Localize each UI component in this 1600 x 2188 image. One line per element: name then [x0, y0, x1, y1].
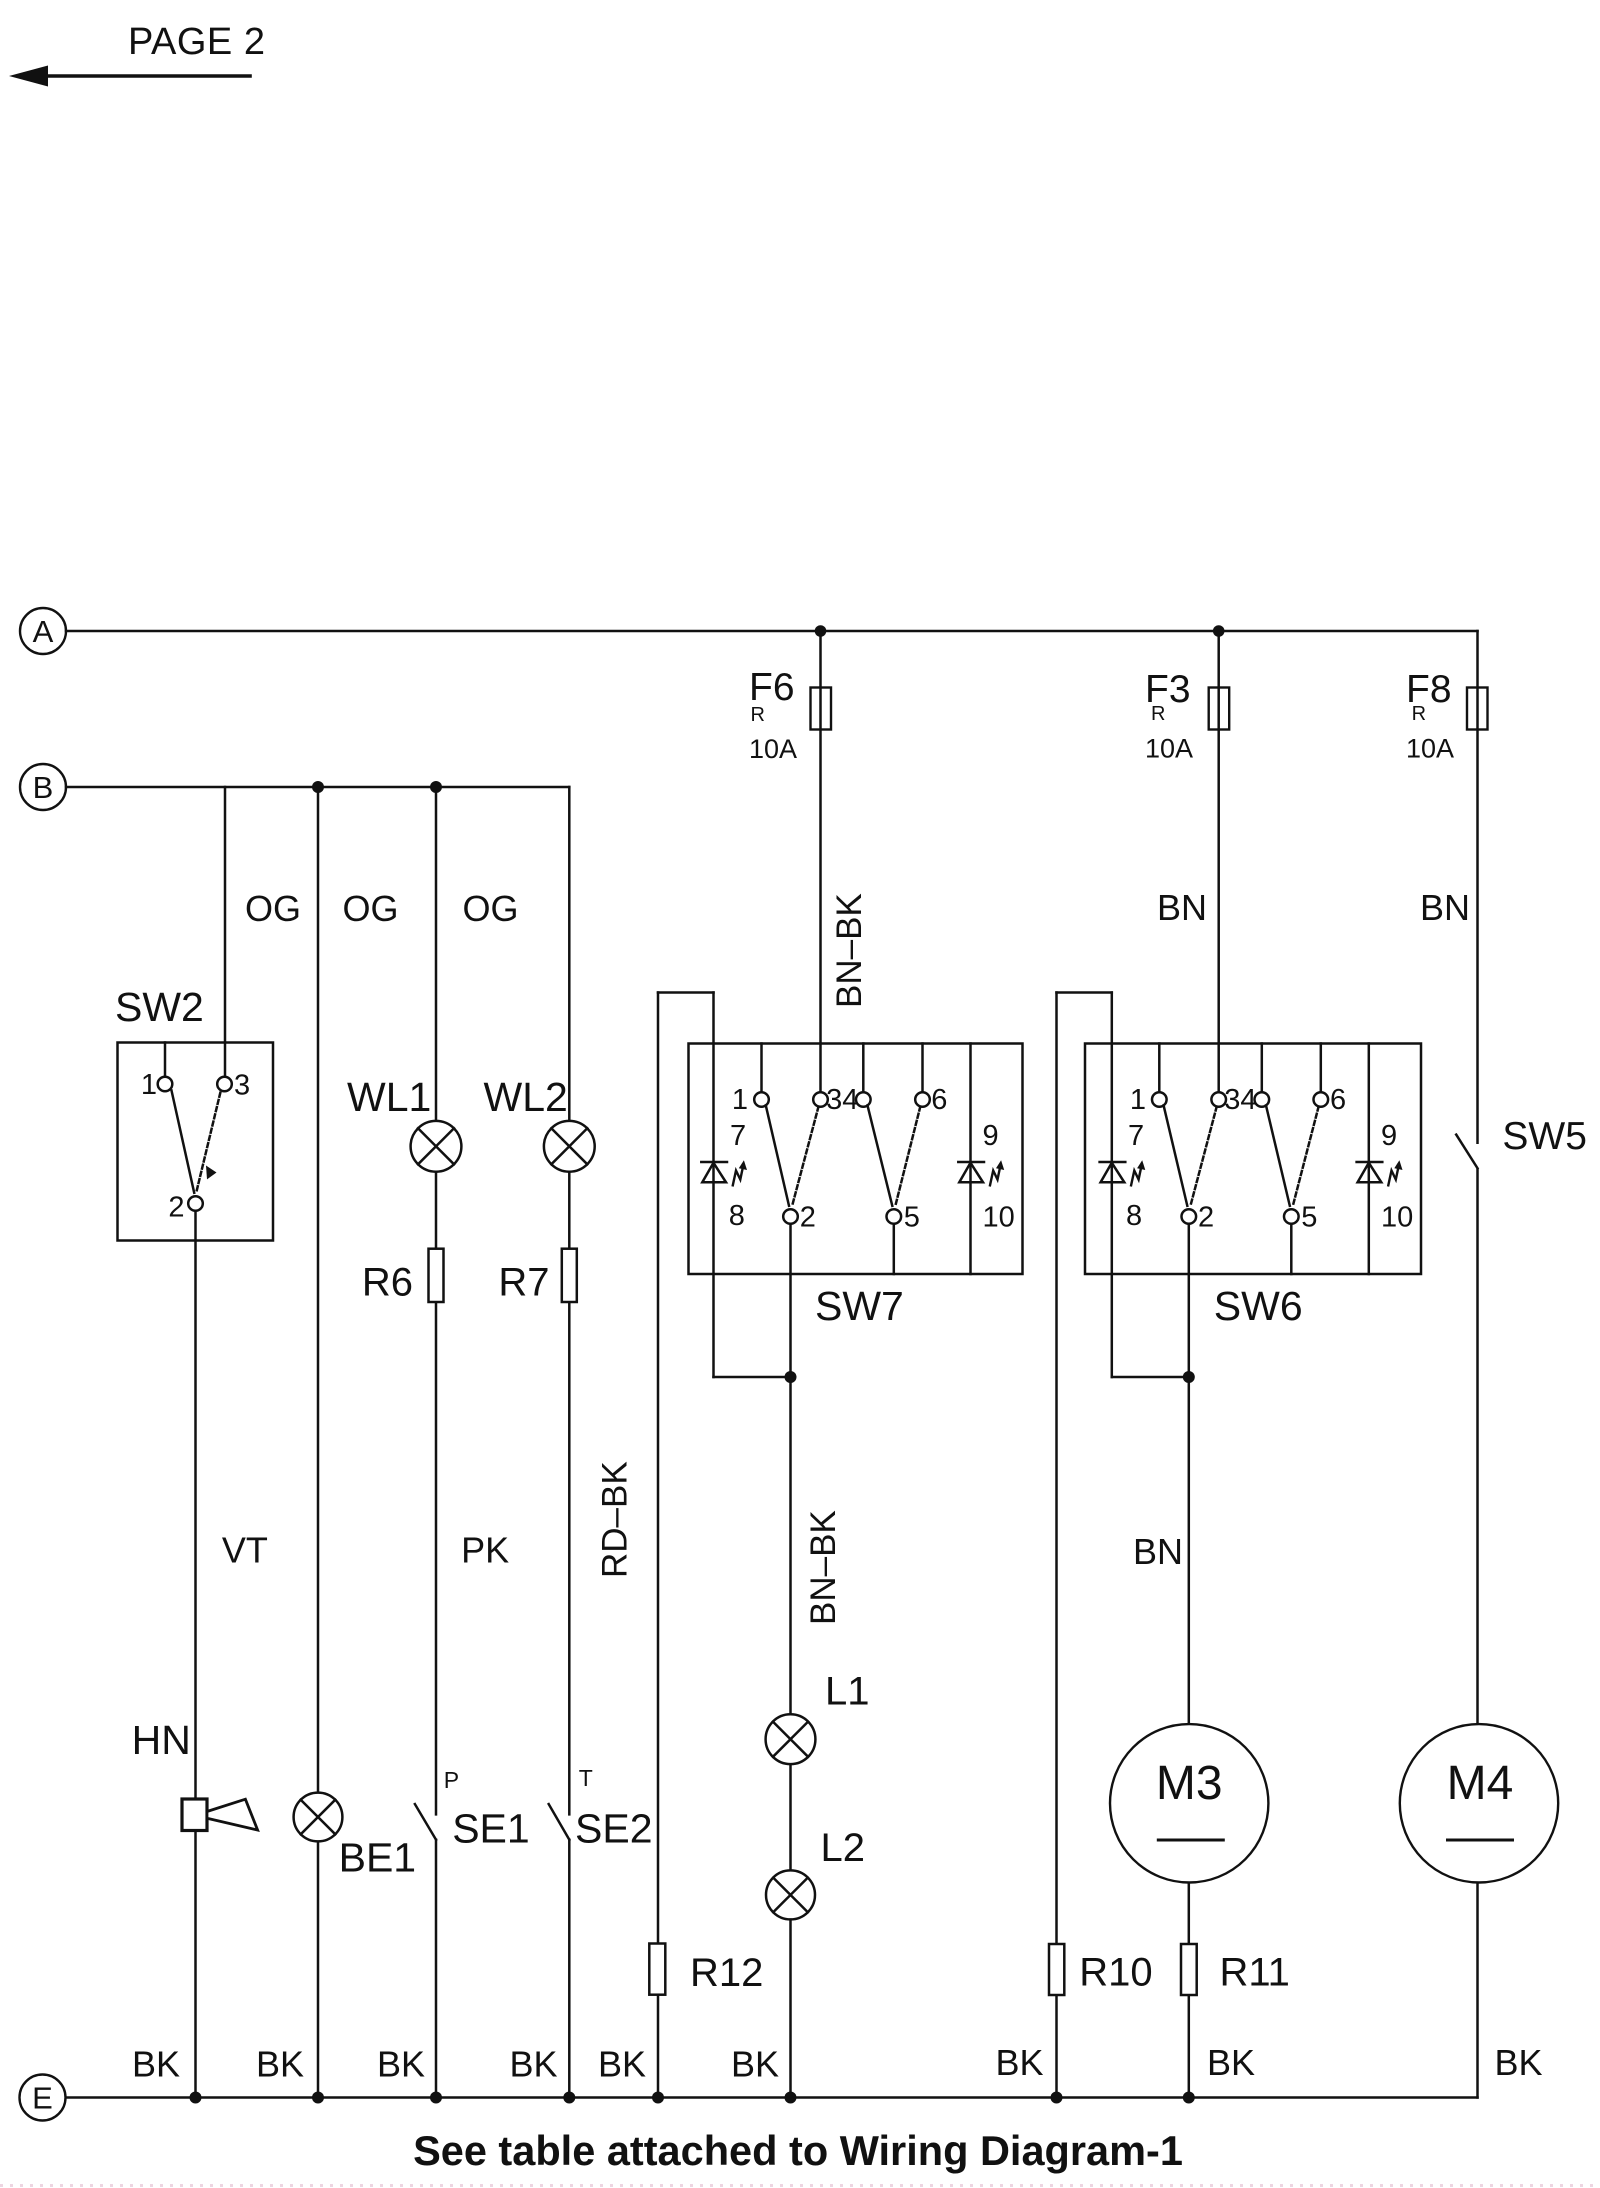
svg-text:9: 9	[983, 1120, 999, 1152]
SW6 pin 6 stub	[1320, 1044, 1323, 1093]
resistor R7	[562, 1249, 577, 1302]
svg-text:10: 10	[1381, 1201, 1413, 1233]
lamp WL2	[544, 1121, 595, 1172]
SW7 pin 2	[783, 1209, 798, 1224]
SW6 pin 1	[1152, 1092, 1167, 1107]
svg-text:7: 7	[1128, 1120, 1144, 1152]
svg-text:R10: R10	[1079, 1951, 1152, 1995]
svg-text:L1: L1	[825, 1670, 870, 1714]
svg-text:SW6: SW6	[1214, 1283, 1303, 1329]
svg-text:M3: M3	[1156, 1757, 1223, 1810]
svg-text:R: R	[1151, 703, 1165, 725]
SW2 alternate contact 3-2 dashed	[197, 1093, 221, 1192]
SW7 indicator diode line (pins 9-10)	[969, 1044, 972, 1275]
svg-text:SW7: SW7	[815, 1283, 904, 1329]
svg-text:BK: BK	[377, 2044, 425, 2085]
wire: SW6 bypass top bend	[1057, 991, 1112, 994]
lamp L1	[766, 1714, 816, 1764]
SW6 pin 3	[1211, 1092, 1226, 1107]
svg-text:OG: OG	[463, 888, 519, 929]
SW6 contact 3-2 dashed	[1191, 1107, 1217, 1206]
svg-text:10A: 10A	[1145, 734, 1193, 764]
switch SW5	[1456, 1135, 1477, 1169]
SW6 pin 4 stub	[1261, 1044, 1264, 1093]
decorative bottom dotted rule	[0, 2184, 1600, 2187]
junction dot A/F3	[1213, 625, 1225, 637]
svg-text:BN–BK: BN–BK	[830, 893, 869, 1008]
svg-text:10A: 10A	[749, 734, 797, 764]
wire: WL2 branch lower (SE2 to bus E)	[568, 1840, 571, 2098]
svg-text:3: 3	[234, 1070, 250, 1102]
junction dot SW7 pin2/diode	[785, 1371, 797, 1383]
svg-text:M4: M4	[1447, 1757, 1514, 1810]
horn HN	[182, 1799, 258, 1831]
svg-text:B: B	[33, 770, 54, 805]
wire: SW7 diode to pin2 connector	[714, 1376, 791, 1379]
SW6 pin 5	[1284, 1209, 1299, 1224]
svg-text:5: 5	[904, 1201, 920, 1233]
svg-text:10A: 10A	[1406, 734, 1454, 764]
wire: SW5 to motor M4 to bus E	[1476, 1170, 1479, 2098]
svg-text:6: 6	[931, 1084, 947, 1116]
node A	[20, 608, 66, 654]
svg-text:SE2: SE2	[575, 1806, 653, 1852]
svg-text:WL1: WL1	[347, 1074, 431, 1120]
svg-text:BK: BK	[256, 2044, 304, 2085]
SW2 moving contact 1-2	[172, 1091, 195, 1193]
svg-text:SW2: SW2	[115, 984, 204, 1030]
svg-text:1: 1	[732, 1084, 748, 1116]
svg-text:8: 8	[1126, 1200, 1142, 1232]
resistor R11	[1181, 1944, 1197, 1995]
wire: BE1 branch from bus B to bus E	[317, 787, 320, 2098]
svg-text:7: 7	[730, 1120, 746, 1152]
SW7 pin 6	[915, 1092, 930, 1107]
SW6 diode arrow	[1131, 1168, 1141, 1185]
svg-text:8: 8	[729, 1200, 745, 1232]
svg-text:BK: BK	[1207, 2042, 1255, 2083]
SW7 pin 6 stub	[921, 1044, 924, 1093]
resistor R6	[429, 1249, 444, 1302]
junction dot A/F6	[815, 625, 827, 637]
SW7 pin 1	[754, 1092, 769, 1107]
svg-text:R7: R7	[498, 1261, 549, 1305]
SW2 actuation arrow	[206, 1166, 217, 1180]
svg-text:VT: VT	[222, 1530, 268, 1571]
svg-text:A: A	[33, 614, 54, 649]
switch SE1	[415, 1804, 436, 1840]
SW2 pin 2	[188, 1196, 203, 1211]
svg-text:9: 9	[1381, 1120, 1397, 1152]
wire: SW7 pin2 output through L1 L2 to bus E	[789, 1224, 792, 2098]
SW6 pin 2	[1182, 1209, 1197, 1224]
SW7 diode arrow	[733, 1168, 743, 1185]
svg-text:BN: BN	[1420, 887, 1470, 928]
wire: fuse F8 branch from bus A to SW5 gap	[1476, 631, 1479, 1143]
SW7 pin 3	[813, 1092, 828, 1107]
svg-text:BK: BK	[995, 2042, 1043, 2083]
SW7 illumination diode (pins 7-8)	[701, 1162, 727, 1182]
wire: SW6 lamp bypass vertical through R10 to bus E	[1055, 993, 1058, 2098]
fuse F6	[811, 688, 832, 730]
SW6 indicator diode (pins 9-10)	[1357, 1162, 1383, 1182]
wire: fuse F6 feed from bus A to SW7 pin3	[819, 631, 822, 1092]
switch SE2	[549, 1804, 570, 1840]
SW7 contact 3-2 dashed	[792, 1107, 818, 1206]
wire: SW6 diode line (pins 7-8)	[1111, 993, 1114, 1378]
SW6 pin 4	[1255, 1092, 1270, 1107]
svg-text:BE1: BE1	[339, 1835, 417, 1881]
motor M4	[1400, 1724, 1558, 1882]
svg-text:See table attached to Wiring D: See table attached to Wiring Diagram-1	[413, 2127, 1183, 2174]
wire: SW2 pin2 to horn HN to bus E	[194, 1211, 197, 2098]
svg-text:34: 34	[1224, 1084, 1256, 1116]
svg-text:HN: HN	[132, 1717, 191, 1763]
fuse F8	[1467, 688, 1488, 730]
svg-text:P: P	[444, 1767, 459, 1793]
SW7 diode arrow right	[990, 1168, 1000, 1185]
svg-text:10: 10	[983, 1201, 1015, 1233]
lamp BE1	[294, 1793, 343, 1842]
junction dots on bus E	[190, 2092, 202, 2104]
svg-text:L2: L2	[821, 1826, 866, 1870]
svg-text:SW5: SW5	[1502, 1115, 1587, 1158]
SW6 indicator diode line (pins 9-10)	[1368, 1044, 1371, 1275]
SW6 contact 4-5	[1266, 1105, 1290, 1205]
SW2 pin 1	[158, 1077, 173, 1092]
svg-text:PAGE 2: PAGE 2	[128, 21, 265, 63]
svg-text:SE1: SE1	[452, 1806, 530, 1852]
svg-text:R: R	[751, 704, 765, 726]
svg-text:OG: OG	[343, 888, 399, 929]
wire: fuse F3 feed from bus A to SW6 pin3	[1217, 631, 1220, 1092]
SW6 diode arrow right	[1388, 1168, 1398, 1185]
svg-text:34: 34	[826, 1084, 858, 1116]
switch SW2	[118, 1043, 274, 1241]
svg-text:2: 2	[800, 1201, 816, 1233]
wire: bus B horizontal	[66, 786, 569, 789]
fuse F3	[1209, 688, 1230, 730]
svg-text:R6: R6	[362, 1261, 413, 1305]
page arrow to previous sheet	[9, 66, 250, 87]
SW6 pin 1 stub	[1158, 1044, 1161, 1093]
junction dot B/WL1	[430, 781, 442, 793]
resistor R10	[1049, 1944, 1064, 1995]
svg-text:R11: R11	[1220, 1951, 1290, 1995]
svg-text:BK: BK	[132, 2044, 180, 2085]
svg-text:6: 6	[1330, 1084, 1346, 1116]
wire: SW7 bypass top bend	[658, 991, 714, 994]
SW2 pin 1 stub	[164, 1043, 167, 1077]
SW6 illumination diode (pins 7-8)	[1100, 1162, 1126, 1182]
svg-text:BK: BK	[598, 2044, 646, 2085]
switch unit SW7	[689, 1044, 1023, 1275]
svg-text:BK: BK	[1494, 2042, 1542, 2083]
SW6 pin 6	[1314, 1092, 1329, 1107]
svg-text:2: 2	[168, 1192, 184, 1224]
SW7 pin 5 stub	[893, 1224, 896, 1274]
svg-text:E: E	[32, 2081, 53, 2116]
wire: WL1 branch upper (to SE1 gap)	[435, 787, 438, 1814]
svg-text:BN: BN	[1157, 887, 1207, 928]
svg-text:R: R	[1412, 703, 1426, 725]
motor M3	[1110, 1724, 1268, 1882]
SW7 contact 4-5	[868, 1105, 893, 1205]
junction dot SW6 pin2/diode	[1183, 1371, 1195, 1383]
svg-text:BK: BK	[509, 2044, 557, 2085]
SW7 contact 6-5 dashed	[896, 1107, 921, 1206]
SW7 indicator diode (pins 9-10)	[958, 1162, 984, 1182]
SW7 pin 4	[856, 1092, 871, 1107]
svg-text:1: 1	[141, 1069, 157, 1101]
wire: SW7 lamp bypass vertical through R12 to bus E	[657, 993, 660, 2098]
svg-text:RD–BK: RD–BK	[596, 1461, 635, 1578]
svg-text:T: T	[579, 1765, 593, 1791]
svg-text:5: 5	[1301, 1201, 1317, 1233]
node B	[20, 764, 66, 810]
svg-text:BN–BK: BN–BK	[804, 1510, 843, 1625]
junction dot B/BE1	[312, 781, 324, 793]
svg-text:WL2: WL2	[484, 1074, 568, 1120]
svg-text:BK: BK	[731, 2044, 779, 2085]
svg-text:BN: BN	[1133, 1531, 1183, 1572]
SW7 pin 5	[887, 1209, 902, 1224]
lamp L2	[766, 1870, 815, 1919]
wire: bus A horizontal	[66, 630, 1478, 633]
SW7 pin 4 stub	[862, 1044, 865, 1093]
SW6 pin 5 stub	[1290, 1224, 1293, 1274]
SW6 contact 1-2	[1164, 1105, 1188, 1205]
SW6 contact 6-5 dashed	[1293, 1107, 1319, 1206]
svg-text:1: 1	[1130, 1084, 1146, 1116]
wire: bus E horizontal	[66, 2096, 1478, 2099]
svg-text:PK: PK	[461, 1530, 509, 1571]
SW7 contact 1-2	[766, 1105, 789, 1205]
wire: WL1 branch lower (SE1 to bus E)	[435, 1840, 438, 2098]
svg-text:2: 2	[1198, 1201, 1214, 1233]
svg-text:F6: F6	[749, 666, 795, 709]
wire: WL2 branch upper (corner from bus B to SE2 gap)	[568, 787, 571, 1814]
switch unit SW6	[1085, 1044, 1421, 1275]
wire: SW7 diode line (pins 7-8)	[712, 993, 715, 1378]
SW2 pin 3	[217, 1077, 232, 1092]
node E	[20, 2075, 66, 2121]
svg-text:R12: R12	[690, 1951, 763, 1995]
wire: SW6 pin2 output through M3 R11 to bus E	[1188, 1224, 1191, 2098]
svg-text:OG: OG	[245, 888, 301, 929]
SW7 pin 1 stub	[760, 1044, 763, 1093]
resistor R12	[649, 1944, 665, 1995]
wire: SW6 diode to pin2 connector	[1112, 1376, 1189, 1379]
lamp WL1	[411, 1121, 462, 1172]
wire: SW2 pin3 feed from bus B	[224, 787, 227, 1077]
